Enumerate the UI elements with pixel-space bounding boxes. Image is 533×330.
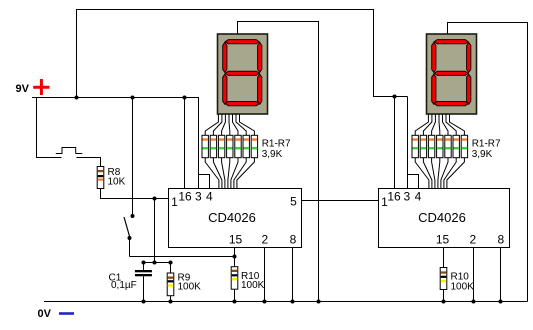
IC U2 CD4026 bbox=[379, 189, 510, 248]
wire: IC1 pin 1 junction down to RC node bbox=[154, 199, 156, 263]
IC U1 CD4026 bbox=[169, 189, 302, 248]
svg-text:0V: 0V bbox=[38, 308, 52, 320]
wire: switch bottom to IC1 pin 15 bbox=[130, 256, 235, 258]
resistors R1-R7 bodies (left) bbox=[202, 135, 258, 157]
svg-text:CD4026: CD4026 bbox=[418, 210, 466, 225]
svg-text:8: 8 bbox=[290, 233, 297, 247]
svg-text:10K: 10K bbox=[108, 177, 126, 188]
svg-text:100K: 100K bbox=[451, 282, 475, 293]
resistor R10 100K (second) bbox=[440, 268, 447, 302]
wire: IC2 pin 3 with branch to pin 4 bbox=[408, 97, 419, 190]
wire: 9V power rail bbox=[32, 97, 199, 99]
label R10 100K (second) bbox=[451, 272, 475, 293]
wire: display 2 top pin (common) bbox=[448, 23, 528, 302]
junction dots: RC node bbox=[142, 261, 173, 265]
wire: IC1 pin 5 to IC2 pin 1 bbox=[302, 200, 378, 202]
resistor R8 10K bbox=[97, 167, 104, 189]
wire: pushbutton branch from rail bbox=[37, 98, 62, 158]
svg-text:1: 1 bbox=[171, 195, 178, 209]
svg-text:4: 4 bbox=[206, 190, 213, 204]
wire: 0V ground rail bbox=[44, 301, 528, 303]
wire: IC1 pin 15 down through R10 to ground bbox=[234, 248, 236, 267]
svg-text:5: 5 bbox=[290, 195, 297, 209]
resistors R1-R7 bodies (right) bbox=[412, 135, 468, 157]
label 0V with minus symbol bbox=[38, 308, 75, 320]
wire: IC1 pin 8 to ground bbox=[292, 248, 294, 302]
wire: IC2 pin 2 to ground bbox=[473, 248, 475, 302]
label C1 0,1uF bbox=[109, 273, 137, 291]
svg-text:8: 8 bbox=[498, 233, 505, 247]
7-segment display DISP2 bbox=[427, 34, 477, 114]
toggle switch S2 (open) bbox=[124, 214, 135, 257]
label 9V with plus symbol bbox=[16, 79, 50, 95]
junction dots on ground rail bbox=[142, 300, 503, 304]
svg-text:4: 4 bbox=[415, 190, 422, 204]
pushbutton S1 (normally open) bbox=[56, 148, 83, 154]
resistor network R1-R7 (right): wires display to resistors to IC bbox=[415, 114, 464, 189]
junction dot: wire A / pin 16 bbox=[393, 95, 397, 99]
capacitor C1 0,1uF bbox=[135, 263, 152, 302]
resistor network R1-R7 (left): wires display to resistors to IC bbox=[205, 114, 254, 189]
svg-text:100K: 100K bbox=[178, 282, 202, 293]
junction dots on 9V rail bbox=[75, 96, 187, 100]
junction dot: pin 1 wire bbox=[153, 197, 157, 201]
svg-text:CD4026: CD4026 bbox=[208, 210, 256, 225]
svg-text:9V: 9V bbox=[16, 83, 30, 95]
wire: rail to toggle switch bbox=[132, 98, 134, 215]
svg-text:3,9K: 3,9K bbox=[472, 149, 493, 160]
resistor R10 100K (first) bbox=[231, 267, 238, 302]
label R9 100K bbox=[178, 273, 202, 293]
svg-text:2: 2 bbox=[470, 233, 477, 247]
junction dot: pin15/switch wire bbox=[233, 255, 237, 259]
wire: R8 to IC1 pin 1 bbox=[101, 189, 169, 199]
svg-text:15: 15 bbox=[229, 233, 243, 247]
label R10 100K (first) bbox=[241, 271, 265, 291]
svg-text:15: 15 bbox=[436, 233, 450, 247]
wire: pushbutton to R8 bbox=[77, 158, 101, 167]
wire: IC2 pin 15 down through R10 to ground bbox=[443, 248, 445, 268]
7-segment display DISP1 bbox=[218, 34, 268, 114]
wire A: 9V rail up over the top to IC2 pins 16/3 bbox=[77, 10, 408, 98]
resistor R9 100K with wires bbox=[167, 263, 174, 302]
svg-text:100K: 100K bbox=[241, 280, 265, 291]
wire: RC node C1 to R9 bbox=[144, 262, 171, 264]
svg-text:3: 3 bbox=[195, 190, 202, 204]
label R1-R7 3,9K (right) bbox=[472, 139, 501, 160]
svg-text:2: 2 bbox=[262, 233, 269, 247]
svg-text:0,1µF: 0,1µF bbox=[111, 280, 137, 291]
wire: IC1 pin 3 from rail corner, with branch to pin 4 bbox=[199, 98, 210, 190]
svg-text:16: 16 bbox=[178, 190, 192, 204]
label R8 10K bbox=[108, 167, 126, 188]
svg-text:16: 16 bbox=[387, 190, 401, 204]
wire: IC1 pin 16 from rail bbox=[184, 98, 186, 190]
svg-text:3: 3 bbox=[403, 190, 410, 204]
label R1-R7 3,9K (left) bbox=[262, 139, 291, 160]
wire: display 1 top pin (common) bbox=[238, 22, 319, 302]
wire: IC2 pin 16 from wire A bbox=[394, 97, 396, 190]
svg-text:3,9K: 3,9K bbox=[262, 149, 283, 160]
wire: IC1 pin 2 to ground bbox=[264, 248, 266, 302]
wire: IC2 pin 8 to ground bbox=[500, 248, 502, 302]
